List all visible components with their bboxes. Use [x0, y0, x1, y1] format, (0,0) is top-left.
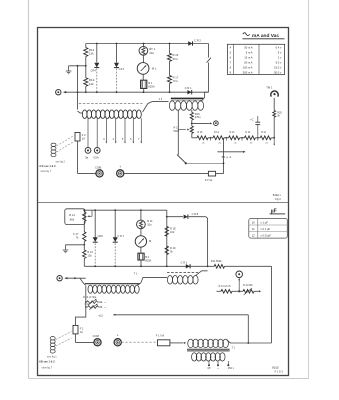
chain end stub arrow [273, 138, 275, 144]
resistor R13b [83, 245, 85, 250]
label box R11 [65, 209, 85, 225]
meter M2 [140, 229, 142, 236]
wire T2 left winding lead down [177, 110, 179, 155]
wire top bus 2 [84, 209, 167, 211]
vertical wire right side with switch S1 [208, 44, 210, 58]
vertical trimmer feed [75, 286, 85, 326]
R17 wiper arrow [178, 129, 186, 131]
svg-text:50 k: 50 k [173, 57, 179, 61]
transformer T1 core [79, 103, 143, 105]
svg-text:1A: 1A [82, 136, 85, 140]
svg-text:R 12: R 12 [245, 132, 251, 134]
svg-text:C4 5: C4 5 [119, 67, 125, 71]
range table header [243, 33, 250, 36]
R11 wiper arrow [91, 210, 93, 216]
diode CR5 branch [116, 44, 118, 63]
svg-text:0.5A: 0.5A [93, 156, 99, 160]
svg-text:C R 8: C R 8 [192, 212, 199, 216]
svg-text:B 1: B 1 [148, 81, 153, 85]
diode CR6 branch [94, 210, 96, 237]
svg-text:10u: 10u [147, 222, 152, 226]
potentiometer R17 [190, 126, 193, 133]
svg-text:F1 ½A: F1 ½A [205, 178, 213, 182]
divider line between Fig 2 and Fig 3 [38, 202, 289, 204]
svg-text:R 15: R 15 [198, 132, 204, 134]
svg-text:270u: 270u [195, 115, 201, 119]
wire riser from long wire [247, 315, 249, 343]
T5 secondary taps [208, 361, 210, 365]
svg-text:12k: 12k [89, 82, 94, 86]
svg-text:C R 1: C R 1 [185, 86, 192, 90]
fuse F1 [208, 171, 215, 176]
diode CR2 [188, 41, 192, 45]
svg-text:+: + [117, 334, 119, 338]
svg-text:CR4: CR4 [91, 68, 97, 72]
svg-text:150 m A: 150 m A [243, 65, 253, 69]
wire T2 secondary tap down [191, 110, 193, 112]
svg-text:+: + [119, 165, 121, 169]
diode CR4 branch [96, 44, 98, 63]
output jack plus [117, 170, 124, 177]
svg-text:COM: COM [93, 334, 100, 338]
svg-text:C R 7: C R 7 [117, 234, 124, 238]
svg-text:R 13: R 13 [87, 250, 93, 254]
svg-text:+C: +C [250, 119, 253, 122]
svg-text:5.0 v: 5.0 v [276, 60, 282, 64]
breaker coil K1 [51, 143, 56, 146]
ground [68, 66, 70, 71]
svg-text:AB see 1 & 2: AB see 1 & 2 [39, 360, 55, 364]
transformer T4 winding [167, 276, 172, 285]
wire F2 to COM 2 [74, 334, 76, 343]
svg-text:M 1: M 1 [152, 67, 157, 71]
svg-text:5a: 5a [85, 156, 88, 160]
multiplier resistor chain R21-R25 [192, 137, 197, 139]
svg-text:R 16: R 16 [173, 53, 179, 57]
svg-text:view fig 7: view fig 7 [41, 169, 52, 173]
output jack COM [96, 170, 103, 177]
svg-text:e12: e12 [99, 314, 104, 317]
fuse F2 [75, 133, 80, 142]
svg-text:R 13: R 13 [230, 132, 236, 134]
svg-text:50.0 v: 50.0 v [274, 70, 282, 74]
svg-text:T 1: T 1 [134, 272, 138, 275]
svg-text:C 17: C 17 [73, 232, 79, 236]
svg-text:5 m A: 5 m A [246, 50, 253, 54]
uF table box [249, 219, 287, 239]
battery B1 [142, 74, 144, 80]
right branch resistors bottom circuit [166, 210, 168, 266]
wire ground tap [69, 65, 86, 67]
svg-text:R 13 (4.7k)a: R 13 (4.7k)a [83, 296, 97, 299]
potentiometer R11 [83, 212, 86, 221]
svg-text:50 µ A: 50 µ A [222, 155, 232, 159]
input jack J4 [57, 276, 62, 281]
dashed wire to F1b [121, 341, 157, 343]
resistor R13 [85, 66, 87, 78]
svg-text:R 11: R 11 [147, 219, 153, 223]
lower chain R12 R500 [217, 290, 222, 292]
wire to cal jack [191, 120, 193, 126]
transformer T3 winding [88, 285, 93, 293]
mechanical linkage dashes [57, 136, 75, 147]
wire F1b to T5 [170, 342, 184, 344]
svg-text:R 19: R 19 [170, 246, 176, 250]
junction dots bus2 [94, 209, 96, 211]
wire right vertical 2 [271, 266, 273, 343]
transformer T1 primary winding [82, 110, 87, 119]
svg-text:250 v: 250 v [228, 367, 235, 370]
tap wires from T1 with arrows [105, 118, 107, 141]
svg-text:1A: 1A [80, 331, 83, 334]
svg-text:x 0.01µF: x 0.01µF [260, 234, 271, 238]
resistor R18 [165, 226, 168, 236]
wire plus jack to switch and fuse F1 [124, 173, 209, 175]
svg-text:see fig 1: see fig 1 [47, 355, 57, 359]
svg-text:CR6: CR6 [98, 234, 104, 238]
svg-text:500 m A: 500 m A [243, 70, 253, 74]
svg-text:R 17: R 17 [173, 75, 179, 79]
pot arrow on second zigzag [244, 288, 252, 295]
resistor R12 [85, 44, 87, 48]
mechanical linkage dashes 2 [56, 332, 72, 340]
wire T1 left lead [77, 66, 79, 110]
transformer T5 secondary winding [192, 353, 197, 361]
svg-text:10u: 10u [149, 51, 154, 55]
range table box [227, 44, 284, 74]
svg-text:R 11: R 11 [261, 132, 266, 134]
transformer T2 core [171, 97, 204, 99]
svg-text:12k: 12k [87, 253, 92, 257]
resistor R12b [83, 221, 85, 231]
svg-text:x 1 µF: x 1 µF [260, 221, 268, 225]
diode CR9 [166, 265, 168, 267]
cal jack J3 [236, 271, 243, 278]
svg-text:0P: 0P [207, 367, 210, 370]
capacitor C6 [257, 125, 259, 138]
thermistor RT2 [140, 210, 142, 220]
node junction dots top bus [96, 43, 98, 45]
transformer T5 primary winding [188, 339, 194, 348]
wire lower bus 2 [84, 265, 214, 267]
tap jack 5A [87, 118, 89, 147]
ground tap 2 [83, 241, 85, 244]
switch throw wire [186, 162, 223, 164]
switch S1 [207, 58, 211, 63]
meter M1 [142, 55, 144, 62]
svg-text:B1&2 s: B1&2 s [273, 194, 282, 197]
battery B2 [140, 247, 142, 253]
svg-text:COM: COM [95, 166, 102, 170]
diode CR7 branch [114, 210, 116, 237]
svg-text:50 m A: 50 m A [244, 60, 253, 64]
thermistor RT1 [143, 44, 145, 47]
transformer T3 core [85, 283, 140, 285]
svg-text:825A: 825A [148, 85, 154, 89]
resistor R17a [169, 61, 171, 75]
svg-text:10: 10 [252, 221, 255, 225]
svg-text:15 m A: 15 m A [244, 55, 253, 59]
svg-text:C R 1: C R 1 [181, 260, 188, 264]
wire lower bus [64, 91, 209, 93]
wire top bus [86, 43, 209, 45]
svg-text:R 17: R 17 [174, 126, 180, 130]
svg-text:see fig 2: see fig 2 [56, 161, 66, 164]
svg-text:F 1 G 3: F 1 G 3 [275, 370, 284, 373]
T3 left lead [80, 278, 85, 285]
resistor R19b [165, 246, 168, 255]
wire TM1 branch to chain end [273, 117, 275, 138]
svg-text:R 18: R 18 [170, 227, 176, 231]
50uA arrow [217, 151, 243, 153]
wire input to T3 [65, 277, 86, 279]
resistor R19 [191, 111, 193, 113]
schematic border frame [38, 28, 289, 376]
svg-text:1 2: 1 2 [159, 97, 163, 101]
svg-text:R 11 500: R 11 500 [243, 284, 253, 287]
svg-text:12: 12 [252, 234, 255, 238]
svg-text:F 2: F 2 [82, 133, 86, 137]
svg-text:Fig 2: Fig 2 [275, 198, 281, 201]
svg-text:50 m A: 50 m A [244, 45, 253, 49]
T3 right lead wire to T4 [137, 277, 167, 285]
svg-text:R11 500k: R11 500k [211, 259, 222, 263]
svg-text:R 14: R 14 [214, 132, 220, 134]
svg-text:825A: 825A [145, 258, 151, 262]
output jack plus 2 [114, 339, 121, 346]
wire T2 right lead [201, 92, 209, 101]
svg-text:A B see 1 & 2: A B see 1 & 2 [39, 164, 56, 168]
node junction dots lower bus [77, 91, 79, 93]
transformer T4 core dashes [167, 272, 198, 274]
svg-text:TM 1: TM 1 [266, 86, 273, 90]
svg-text:C R 2: C R 2 [194, 39, 201, 43]
svg-text:12k: 12k [89, 52, 94, 56]
svg-text:R 12 1/2.7k: R 12 1/2.7k [219, 285, 232, 288]
tap jack 0.5A [96, 118, 98, 147]
svg-text:x 0.1 µF: x 0.1 µF [260, 227, 270, 231]
svg-text:view fig 7: view fig 7 [42, 366, 53, 370]
T5 right lead [227, 340, 272, 343]
svg-text:15.0 v: 15.0 v [274, 65, 282, 69]
ground 2 [65, 245, 67, 250]
resistor R16 [169, 44, 171, 54]
resistor R16 500k [214, 264, 224, 268]
output jack COM 2 [94, 339, 101, 346]
svg-text:R19: R19 [195, 112, 200, 116]
svg-text:mA and Vac: mA and Vac [252, 33, 279, 39]
breaker coil K2 [50, 337, 55, 340]
wire T1 right lead to T2 [143, 102, 169, 112]
svg-text:10k: 10k [170, 230, 175, 234]
resistor R20 [273, 98, 275, 111]
diode CR8 segment [166, 216, 168, 218]
tick stubs below chain [210, 138, 212, 141]
cal jack J2 [214, 121, 219, 126]
svg-text:B 2: B 2 [145, 255, 149, 259]
page scan edges [28, 0, 30, 379]
diode CR1 [187, 90, 191, 94]
transformer T2 primary winding [169, 101, 175, 110]
T4 right lead [196, 271, 208, 276]
svg-text:11: 11 [252, 227, 255, 231]
svg-text:56k: 56k [70, 217, 75, 221]
svg-text:0.4 v: 0.4 v [276, 45, 282, 49]
fuse F2b [73, 325, 78, 334]
long wire B12 [113, 314, 115, 316]
svg-text:F 1 ½A: F 1 ½A [156, 333, 165, 337]
wire fuse to COM [77, 141, 79, 173]
wire F1 to chain riser [216, 173, 224, 175]
svg-text:B1&2/: B1&2/ [272, 367, 279, 370]
switch S2 [185, 162, 187, 164]
transformer T5 core [187, 348, 230, 350]
svg-text:70 k: 70 k [173, 79, 179, 83]
input jack J1 [56, 90, 61, 95]
